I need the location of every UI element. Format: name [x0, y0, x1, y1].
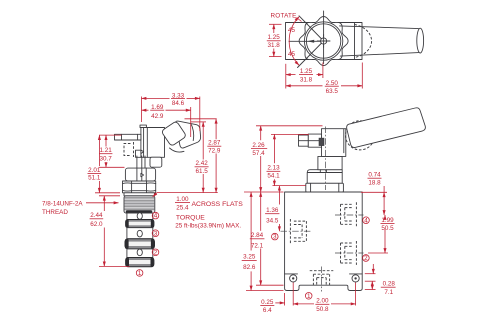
svg-text:7/8-14UNF-2A: 7/8-14UNF-2A	[42, 200, 83, 207]
dim 2.26/57.4	[260, 126, 262, 140]
port callout 4	[152, 212, 159, 219]
pivot boss	[150, 157, 162, 167]
svg-text:1.36: 1.36	[266, 207, 279, 214]
callout 1	[305, 293, 312, 300]
callout 2	[363, 255, 370, 262]
rotation arc +/-45 (red)	[289, 17, 299, 66]
cartridge body segment A	[127, 213, 153, 220]
svg-text:72.1: 72.1	[251, 242, 264, 249]
dim 2.01/51.1	[98, 135, 100, 166]
svg-text:84.6: 84.6	[172, 100, 185, 107]
ext line base plate level left	[273, 185, 306, 187]
svg-text:0.25: 0.25	[261, 299, 274, 306]
housing inner edges	[143, 128, 145, 158]
knob rings	[304, 22, 342, 60]
ext line feet bottom left	[246, 290, 284, 292]
dim 2.87/72.9	[185, 118, 217, 120]
handle end cap ellipse	[417, 28, 424, 53]
dim 1.25/31.8 vertical (plate)	[269, 23, 282, 25]
o-ring band 1	[126, 220, 154, 228]
port callout 2	[152, 249, 159, 256]
45-degree spoke lower-left	[298, 41, 324, 68]
vertical centerline through knob	[323, 11, 325, 64]
svg-text:0.74: 0.74	[368, 172, 381, 179]
svg-text:2.50: 2.50	[326, 80, 339, 87]
hidden terminal bracket (dashed)	[124, 144, 131, 156]
port boss 2 (hidden, right lower)	[335, 241, 364, 265]
svg-text:72.9: 72.9	[208, 148, 221, 155]
svg-text:6.4: 6.4	[263, 307, 272, 314]
callout 3	[272, 233, 279, 240]
port boss 4 (hidden, right upper)	[335, 202, 364, 226]
collar	[125, 168, 155, 181]
svg-text:0.28: 0.28	[383, 281, 396, 288]
ext line hole center right	[355, 283, 357, 306]
port hole 2	[137, 249, 142, 256]
dim 0.28/7.1	[365, 280, 376, 282]
across flats leader	[153, 193, 157, 197]
dim 3.25/82.6	[250, 192, 252, 251]
svg-text:45: 45	[288, 27, 296, 34]
hex flats extension line	[157, 192, 218, 194]
neck	[318, 156, 342, 169]
svg-text:1.00: 1.00	[176, 196, 189, 203]
dim 2.84/72.1	[260, 192, 262, 231]
svg-text:31.8: 31.8	[300, 77, 313, 84]
housing lower-left tab	[136, 150, 141, 157]
dim 2.44/62.0	[99, 195, 120, 197]
foot flange line right	[350, 273, 363, 275]
foot flange line left	[285, 273, 298, 275]
stem tube below housing	[136, 156, 138, 168]
ext line block bottom left	[256, 284, 284, 286]
ext line terminal top	[271, 133, 309, 135]
knob center target	[321, 38, 327, 44]
port callout 3	[152, 230, 159, 237]
knob underside arc	[170, 148, 185, 152]
svg-text:51.1: 51.1	[88, 175, 101, 182]
svg-text:1.25: 1.25	[300, 68, 313, 75]
dim 2.13/54.1	[273, 134, 275, 163]
svg-text:1.99: 1.99	[381, 217, 394, 224]
svg-text:THREAD: THREAD	[42, 209, 68, 216]
hand knob scalloped outline (top view)	[299, 17, 348, 66]
hidden knob arc under handle (dashed)	[355, 25, 372, 58]
svg-text:1: 1	[138, 270, 142, 277]
svg-text:45: 45	[288, 51, 296, 58]
washer	[124, 193, 154, 196]
svg-text:34.5: 34.5	[266, 217, 279, 224]
svg-text:TORQUE: TORQUE	[176, 215, 205, 222]
o-ring band 3 (nose)	[126, 258, 154, 267]
svg-text:3: 3	[273, 234, 277, 241]
horizontal pointer line with arrowhead	[289, 40, 324, 42]
svg-text:2.00: 2.00	[316, 298, 329, 305]
switch housing (front)	[322, 129, 346, 157]
port hole 3	[137, 230, 142, 237]
plate fold edge	[354, 23, 356, 60]
collar wedge detail	[141, 173, 144, 176]
svg-text:63.5: 63.5	[326, 88, 339, 95]
svg-text:2.01: 2.01	[88, 167, 101, 174]
dim 2.00/50.8	[293, 303, 314, 305]
o-ring band 2	[125, 239, 155, 249]
svg-text:7.1: 7.1	[384, 289, 393, 296]
svg-text:2.42: 2.42	[195, 160, 208, 167]
dim 1.99/50.5	[368, 252, 388, 254]
base plate ticks	[310, 183, 312, 192]
svg-text:2.26: 2.26	[252, 142, 265, 149]
port boss 1 (hidden, bottom)	[310, 267, 334, 292]
foot hole left	[290, 275, 297, 282]
ext line hole center left	[292, 283, 294, 306]
svg-text:30.7: 30.7	[99, 156, 112, 163]
svg-text:18.8: 18.8	[368, 180, 381, 187]
grip inner edge	[191, 125, 193, 141]
dim 3.33/84.6	[141, 97, 143, 123]
svg-text:25.4: 25.4	[176, 204, 189, 211]
svg-text:1.21: 1.21	[99, 147, 112, 154]
callout 4	[363, 217, 370, 224]
svg-text:31.8: 31.8	[267, 42, 280, 49]
housing top tab	[140, 125, 146, 127]
dim 1.21/30.7	[99, 134, 122, 136]
switch housing box (side)	[141, 128, 165, 158]
threaded section 7/8-14UNF	[124, 196, 155, 213]
dim 2.50/63.5 horizontal (plate width)	[361, 63, 363, 89]
port boss 3 (hidden, left)	[281, 219, 312, 243]
terminal plate 2	[299, 135, 309, 146]
dim 1.69/42.9	[190, 107, 192, 137]
lever knob (side view, tilted)	[161, 121, 187, 147]
foot hole right	[352, 275, 359, 282]
terminal seam	[299, 140, 322, 142]
port callout 1	[136, 270, 143, 277]
dim 1.25/31.8 horizontal (knob offset)	[285, 64, 287, 89]
svg-text:54.1: 54.1	[267, 173, 280, 180]
svg-text:ACROSS FLATS: ACROSS FLATS	[192, 201, 244, 208]
terminal plate 1	[308, 134, 321, 147]
lever handle (front)	[347, 108, 426, 148]
hex locknut (side)	[123, 181, 156, 193]
port hole 4	[137, 213, 142, 220]
handle cone (top view)	[340, 26, 419, 56]
upper wedge detail	[141, 150, 144, 154]
svg-text:50.8: 50.8	[316, 306, 329, 313]
svg-text:ROTATE: ROTATE	[271, 12, 297, 19]
plinth	[307, 170, 342, 184]
mounting plate (top view)	[286, 23, 363, 60]
svg-text:2: 2	[154, 249, 158, 256]
base plate	[306, 183, 344, 192]
svg-text:2.13: 2.13	[267, 165, 280, 172]
svg-text:62.0: 62.0	[90, 221, 103, 228]
svg-text:57.4: 57.4	[252, 150, 265, 157]
45-degree spoke upper-left	[299, 16, 324, 41]
ROTATE leader	[297, 18, 302, 22]
svg-text:3: 3	[154, 230, 158, 237]
terminal screw	[319, 138, 324, 145]
ext line block top right	[361, 191, 387, 193]
svg-text:50.5: 50.5	[381, 225, 394, 232]
stem lines	[319, 170, 321, 172]
svg-text:2: 2	[364, 255, 368, 262]
cartridge body segment B	[127, 228, 153, 239]
knob hidden circle (front, dashed)	[346, 121, 375, 150]
flange tick with arrow	[365, 273, 376, 275]
svg-text:3.25: 3.25	[243, 254, 256, 261]
manifold body block with feet	[285, 192, 363, 291]
lever grip end (side view)	[175, 121, 200, 148]
svg-text:2.87: 2.87	[208, 140, 221, 147]
svg-text:1.25: 1.25	[267, 34, 280, 41]
dim 2.42/61.5	[191, 121, 206, 123]
plinth seam	[308, 172, 343, 174]
valve centerline (front)	[325, 127, 327, 191]
svg-text:61.5: 61.5	[195, 168, 208, 175]
svg-text:2.44: 2.44	[90, 212, 103, 219]
terminal bar (side, left)	[115, 134, 141, 140]
svg-text:82.6: 82.6	[243, 264, 256, 271]
cartridge body segment C	[127, 249, 153, 258]
ext line block top left	[244, 191, 284, 193]
svg-text:2.84: 2.84	[251, 232, 264, 239]
ext line lever top	[256, 125, 323, 127]
svg-text:1: 1	[307, 293, 311, 300]
svg-text:25 ft-lbs(33.9Nm) MAX.: 25 ft-lbs(33.9Nm) MAX.	[175, 223, 241, 230]
ext line foot edge left (bottom dims)	[284, 293, 286, 306]
svg-text:4: 4	[364, 217, 368, 224]
svg-text:42.9: 42.9	[151, 113, 164, 120]
svg-text:4: 4	[154, 213, 158, 220]
dim 1.36/34.5	[278, 186, 280, 205]
